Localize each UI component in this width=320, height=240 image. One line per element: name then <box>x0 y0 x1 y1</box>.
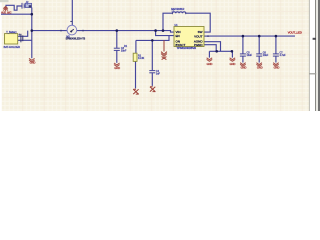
ground GND4 (PGND) <box>230 58 236 62</box>
capacitor C6 plates <box>256 54 262 56</box>
wire gnd drop right <box>231 51 233 57</box>
battery BT1 <box>5 34 18 44</box>
junction out-C6 <box>258 35 261 38</box>
ground GND7 <box>273 63 279 66</box>
port X1 (R1 bottom) <box>133 89 139 94</box>
svg-text:BAT-HOLDER: BAT-HOLDER <box>4 45 21 49</box>
sheet background <box>0 0 320 111</box>
ground GND5 <box>240 63 246 66</box>
capacitor C5 plates <box>240 54 246 56</box>
battery plates <box>21 34 23 43</box>
svg-text:10uF: 10uF <box>263 54 269 57</box>
svg-text:GND: GND <box>207 62 213 66</box>
junction bus-EN <box>154 29 157 32</box>
border tick 2 <box>309 73 316 74</box>
wire inductor to SW pin <box>186 13 211 32</box>
wire AGND routing <box>210 42 221 52</box>
wire C4 chain <box>151 40 153 70</box>
svg-text:GND: GND <box>274 66 280 70</box>
svg-text:1nF: 1nF <box>156 73 161 76</box>
capacitor C4 plates <box>149 71 155 73</box>
wire mic top off-page <box>71 0 73 25</box>
border tick 1 <box>313 38 316 40</box>
svg-text:+: + <box>18 33 20 37</box>
svg-text:13.3K: 13.3K <box>138 57 145 60</box>
resistor R1 <box>133 53 137 61</box>
wire gnd drop left <box>208 51 210 57</box>
IC right pin stubs <box>204 35 210 37</box>
wire main bus <box>32 31 174 32</box>
wire PGND routing <box>210 45 217 52</box>
junction dots <box>31 13 278 53</box>
wire battery plus pin <box>18 31 28 37</box>
svg-text:GND: GND <box>241 66 247 70</box>
wire output rail <box>210 35 296 37</box>
svg-text:GND: GND <box>114 66 120 70</box>
ground GND2 (C3) <box>114 63 120 67</box>
svg-text:GND: GND <box>257 66 263 70</box>
junction bus-inductor <box>162 29 165 32</box>
junction rail-C4 <box>151 39 154 42</box>
junction mic/connector <box>31 13 34 16</box>
capacitor C7 plates <box>273 54 279 56</box>
svg-text:EN: EN <box>176 34 180 38</box>
capacitor C1 plates <box>22 3 25 9</box>
svg-text:TPS61040DBVR: TPS61040DBVR <box>177 46 197 50</box>
wire EN from bus junction <box>156 31 174 36</box>
svg-text:4.7uF: 4.7uF <box>280 54 287 57</box>
wire vertical connector to bus junction <box>31 8 33 31</box>
pin end ticks <box>61 12 208 37</box>
wire Cout2 drop <box>258 36 260 53</box>
port PWR (FB rail) <box>161 40 167 59</box>
svg-text:10uF: 10uF <box>247 54 253 57</box>
wire feedback rail <box>136 36 169 41</box>
top-left gray smudge <box>0 0 9 2</box>
wire battery minus pin <box>18 39 32 41</box>
wire inductor riser <box>163 13 172 30</box>
svg-text:10nF: 10nF <box>121 50 127 53</box>
junction out-C5 <box>242 35 245 38</box>
ground GND1 (battery) <box>29 58 35 62</box>
junction bus-C3 <box>116 29 119 32</box>
port X2 (C4 bottom) <box>150 87 156 92</box>
svg-text:SW: SW <box>198 30 203 34</box>
svg-text:GND: GND <box>230 62 236 66</box>
ground GND6 <box>256 63 262 66</box>
wire staircase to mic jack <box>6 5 22 10</box>
wire R1 bottom <box>135 61 137 88</box>
wire R1 top <box>135 40 137 53</box>
svg-text:VOUT: VOUT <box>194 34 203 38</box>
svg-text:GND: GND <box>30 61 36 65</box>
svg-text:SPM0408LE5H-TB: SPM0408LE5H-TB <box>66 39 86 41</box>
sheet right border <box>308 0 311 111</box>
wire mic input from left edge <box>1 13 32 15</box>
ground GND3 (AGND) <box>207 58 213 62</box>
left white margin <box>0 0 2 111</box>
wire ground rail under IC <box>209 50 232 52</box>
mic jack J2 <box>25 3 31 7</box>
svg-text:T_Battery: T_Battery <box>6 31 17 34</box>
wire Cout3 drop <box>275 36 277 53</box>
inductor L1 <box>172 12 185 13</box>
junction bus-battery <box>31 29 34 32</box>
IC U1 <box>174 27 204 47</box>
wire C3 to ground <box>116 51 118 63</box>
microphone MK1 <box>67 25 77 35</box>
wire C3 drop from bus <box>116 31 118 48</box>
junction gnd rail 2 <box>231 50 234 53</box>
svg-text:AUD_MIC: AUD_MIC <box>1 12 12 15</box>
wire battery ground drop <box>31 31 33 59</box>
power port P1 (audio mic bias) <box>3 6 8 11</box>
junction gnd rail 1 <box>215 50 218 53</box>
svg-text:VOUT_LED: VOUT_LED <box>288 31 302 35</box>
junction out-C7 <box>275 35 278 38</box>
wire Cout1 drop <box>242 36 244 53</box>
capacitor C3 plates <box>114 48 120 50</box>
IC pin names <box>176 30 204 47</box>
